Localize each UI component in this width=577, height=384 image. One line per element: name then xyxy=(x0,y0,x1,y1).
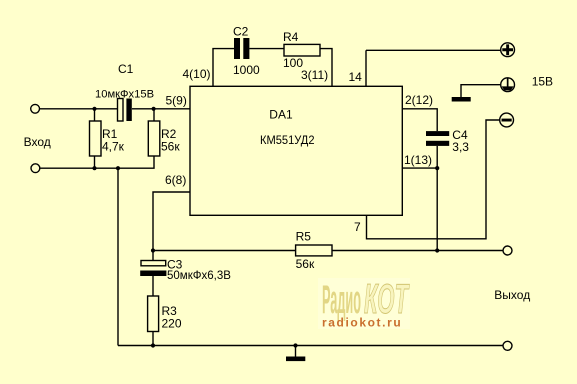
svg-text:КМ551УД2: КМ551УД2 xyxy=(260,133,315,147)
terminal output top xyxy=(503,246,512,255)
svg-text:4,7к: 4,7к xyxy=(102,140,125,154)
resistor R4 xyxy=(284,44,320,56)
svg-text:220: 220 xyxy=(162,317,182,331)
wire: minus terminal to DA1 pin 7 xyxy=(367,120,500,239)
svg-text:100: 100 xyxy=(283,56,303,70)
wire: DA1 pin 1(13) xyxy=(402,167,437,169)
wire: C4 bottom to output wire xyxy=(436,146,438,251)
resistor R2 xyxy=(148,121,160,156)
junction node: R3 bottom xyxy=(151,343,155,347)
svg-text:2(12): 2(12) xyxy=(405,93,433,107)
wire: DA1 pin 2(12) to C4 xyxy=(402,109,437,131)
wire: R5 to output top xyxy=(332,250,503,252)
wire: DA1 pin 6(8) to C3 xyxy=(153,192,190,261)
minus sign xyxy=(502,119,512,122)
wire: bottom rail xyxy=(118,345,503,347)
svg-text:56к: 56к xyxy=(161,140,180,154)
svg-text:5(9): 5(9) xyxy=(166,94,187,108)
terminal power ground xyxy=(501,78,515,92)
wire: bottom ground stub xyxy=(295,346,297,358)
wire: R1 top lead xyxy=(94,109,96,121)
junction node: C4 bottom xyxy=(435,166,439,170)
wire: C1 to DA1 pin 5(9) xyxy=(132,108,190,110)
wire: R4 to DA1 pin 3(11) xyxy=(320,49,332,87)
svg-text:10мкФх15В: 10мкФх15В xyxy=(95,89,154,101)
terminal minus xyxy=(500,113,514,127)
junction node: C3 top xyxy=(151,248,155,252)
ground symbol mid right xyxy=(452,97,471,102)
wire: C3 to R3 xyxy=(152,276,154,296)
svg-text:56к: 56к xyxy=(296,257,315,271)
op-amp DA1 xyxy=(190,86,402,215)
ground symbol bottom xyxy=(286,357,305,362)
capacitor C2 xyxy=(234,38,240,59)
svg-text:50мкФх6,3В: 50мкФх6,3В xyxy=(167,270,231,282)
svg-text:radiokot.ru: radiokot.ru xyxy=(322,316,402,330)
wire: DA1 pin 14 lead xyxy=(365,50,367,86)
svg-text:1000: 1000 xyxy=(233,63,260,77)
svg-text:3,3: 3,3 xyxy=(452,140,469,154)
wire: R1 bottom lead xyxy=(94,156,96,168)
plus sign xyxy=(502,44,513,55)
svg-text:R5: R5 xyxy=(296,229,312,243)
terminal input bottom xyxy=(31,164,40,173)
terminal input top xyxy=(31,104,40,113)
svg-text:1(13): 1(13) xyxy=(404,153,432,167)
svg-text:C2: C2 xyxy=(233,25,249,39)
capacitor C3 xyxy=(141,261,166,266)
junction node: R2 top xyxy=(152,107,156,111)
capacitor C4 xyxy=(426,131,449,136)
svg-text:C1: C1 xyxy=(118,62,134,76)
terminal plus xyxy=(501,43,515,57)
wire: input top to C1 xyxy=(39,108,117,110)
wire: DA1 pin 4(10) to C2 xyxy=(213,49,234,87)
capacitor C1 plus plate xyxy=(126,99,131,122)
wire: R3 to bottom rail xyxy=(152,332,154,346)
svg-text:3(11): 3(11) xyxy=(301,68,328,82)
junction node: ground rail xyxy=(293,343,297,347)
wire: node to bottom rail xyxy=(117,168,119,345)
svg-text:DA1: DA1 xyxy=(269,107,293,121)
resistor R3 xyxy=(148,296,159,332)
wire: node to R5 xyxy=(153,250,296,252)
svg-text:R4: R4 xyxy=(283,30,299,44)
resistor R5 xyxy=(296,245,332,256)
svg-text:7: 7 xyxy=(354,220,361,234)
resistor R1 xyxy=(90,121,102,156)
svg-text:Выход: Выход xyxy=(494,288,530,302)
ground glyph in circle xyxy=(507,78,509,86)
wire: C2 to R4 xyxy=(249,48,284,50)
wire: pin 14 to plus terminal xyxy=(366,49,500,51)
wire: input bottom to R2 bottom xyxy=(39,156,154,168)
svg-text:6(8): 6(8) xyxy=(165,173,186,187)
svg-text:15В: 15В xyxy=(532,75,553,89)
junction node: rail drop xyxy=(116,166,120,170)
junction node: output wire xyxy=(435,248,439,252)
junction node: R1 bottom xyxy=(92,166,96,170)
svg-text:14: 14 xyxy=(349,70,363,84)
svg-text:4(10): 4(10) xyxy=(183,67,211,81)
wire: R2 top lead xyxy=(153,109,155,121)
watermark background xyxy=(318,278,410,329)
junction node: R1 top xyxy=(92,107,96,111)
capacitor C1 xyxy=(118,99,124,122)
svg-text:Вход: Вход xyxy=(24,135,51,149)
terminal output bottom xyxy=(503,341,512,350)
wire: ground terminal to ground symbol xyxy=(461,85,500,97)
